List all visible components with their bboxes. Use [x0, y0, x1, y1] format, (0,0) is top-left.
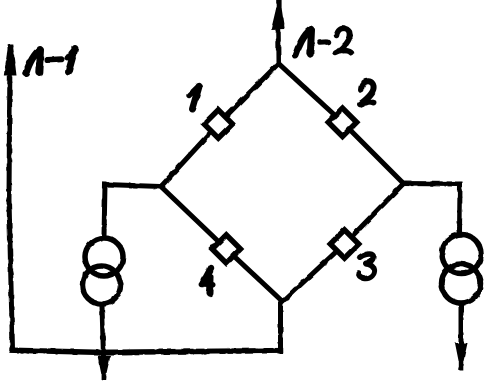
switch 1 diamond	[204, 110, 232, 138]
wire: left feeder line Л-1 vertical	[9, 47, 13, 349]
arrow head: T2 branch down arrow	[455, 343, 468, 361]
wire: bridge diagonal top vertex to left vertex through switch 1	[161, 64, 279, 187]
arrow stub: T1 arrow tip	[102, 372, 107, 380]
wire: bottom bus horizontal	[12, 350, 281, 352]
transformer T1 upper circle	[85, 238, 123, 276]
wire: right vertex to transformer T2	[404, 184, 461, 234]
wire: bridge diagonal right vertex to bottom vertex through switch 3	[283, 184, 404, 302]
wire: transformer T2 down to arrow	[459, 304, 464, 346]
transformer T2 lower circle	[442, 264, 481, 303]
switch 4 diamond	[212, 235, 240, 263]
label 4	[201, 268, 213, 293]
wire: top line Л-2 stem	[276, 27, 281, 64]
arrow tip stub: line Л-2	[276, 0, 281, 10]
arrow head: line Л-2 up arrow	[271, 8, 285, 30]
switch 2 diamond	[328, 108, 356, 136]
label 3	[359, 254, 375, 278]
wire: bridge diagonal left vertex to bottom vertex through switch 4	[161, 187, 283, 302]
transformer T1 lower circle	[83, 266, 121, 304]
wire: riser from bottom bus to bridge bottom vertex	[281, 302, 283, 352]
label 1	[189, 86, 199, 110]
label Л-2	[296, 28, 352, 55]
wire: transformer T1 to bottom arrow	[102, 306, 104, 357]
label 2	[360, 81, 374, 104]
transformer T2 upper circle	[442, 235, 481, 274]
arrow head: T1 branch down arrow	[98, 356, 111, 375]
switch 3 diamond	[330, 230, 358, 258]
label Л-1	[26, 49, 75, 74]
wire: left vertex to transformer T1	[104, 185, 161, 237]
arrow head: line Л-1 up arrow	[4, 44, 17, 76]
arrow stub: T2 arrow tip	[459, 359, 464, 371]
wire: bridge diagonal top vertex to right vertex through switch 2	[279, 64, 404, 184]
